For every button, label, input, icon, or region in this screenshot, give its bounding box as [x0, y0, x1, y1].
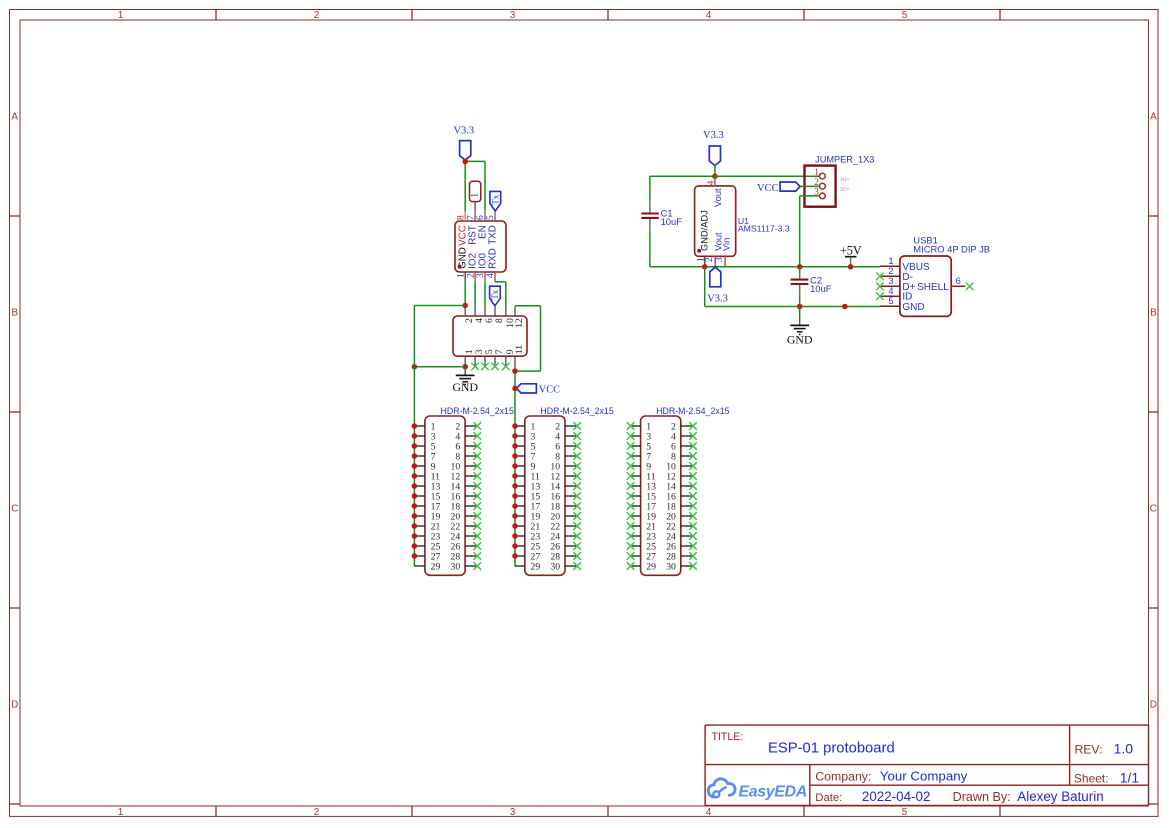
power flag +5V [840, 244, 862, 267]
svg-text:V3.3: V3.3 [453, 126, 474, 137]
wire J2 pin12 loop to pin11 [515, 306, 541, 371]
net flag VCC (jumper) [757, 182, 800, 194]
svg-text:2: 2 [314, 807, 320, 818]
svg-text:V3.3: V3.3 [703, 130, 724, 141]
wire JP1 pin3 down [800, 196, 820, 267]
no-connect mark USB1 pin 6 [966, 283, 974, 291]
svg-text:Sheet:: Sheet: [1074, 772, 1109, 786]
title texts [712, 731, 1140, 804]
svg-text:VCC: VCC [757, 183, 779, 194]
wire down to ESP pin 6 [484, 161, 486, 211]
svg-text:29: 29 [431, 561, 441, 572]
svg-text:Tx: Tx [490, 289, 500, 299]
svg-text:3: 3 [888, 276, 893, 286]
svg-text:ESP-01 protoboard: ESP-01 protoboard [768, 740, 895, 756]
svg-text:Vout: Vout [713, 188, 723, 207]
svg-text:3: 3 [714, 257, 724, 262]
junction +5V [848, 264, 854, 270]
svg-text:12: 12 [514, 318, 525, 328]
svg-text:EasyEDA: EasyEDA [739, 784, 807, 801]
svg-text:4: 4 [706, 10, 712, 21]
connector P4 HDR-M-2.54_2x15 [631, 406, 730, 575]
connector J2 2x6 header [453, 306, 527, 366]
wire left branch to GND rail [414, 305, 465, 307]
svg-text:B: B [1150, 308, 1157, 319]
svg-text:J12=: J12= [840, 177, 850, 182]
svg-text:RXD: RXD [488, 248, 499, 269]
wire ESP pin4 jog right [495, 282, 506, 306]
capacitor C2 10uF [791, 267, 832, 307]
net label Tx (lower) [490, 286, 501, 306]
connector P2 HDR-M-2.54_2x15 [414, 406, 514, 575]
junction J2 pin1 / GND [462, 364, 468, 370]
no-connect marks USB1 pins 2,3,4 [876, 273, 884, 301]
svg-text:+5V: +5V [840, 244, 862, 258]
wire top rail V3.3 [650, 175, 820, 177]
power flag V3.3 (output, pointing up) [707, 267, 728, 304]
jumper JP1 JUMPER_1X3 [805, 155, 875, 207]
connector P3 HDR-M-2.54_2x15 [515, 406, 614, 575]
svg-text:1: 1 [118, 807, 124, 818]
wire ESP pin3 down [484, 282, 486, 306]
svg-text:2022-04-02: 2022-04-02 [862, 789, 931, 804]
wire V3.3 flag stub [714, 166, 716, 177]
svg-text:SHELL: SHELL [917, 282, 949, 293]
svg-text:B: B [11, 308, 18, 319]
svg-text:Your Company: Your Company [880, 768, 968, 783]
ground symbol GND (left) [452, 367, 478, 395]
wire V3.3 to ESP pin 8 [464, 161, 466, 211]
svg-text:1: 1 [118, 10, 124, 21]
svg-text:Drawn By:: Drawn By: [953, 790, 1011, 804]
wire C1 top [649, 176, 651, 201]
no-connect marks J2 pins 3,5,7,9 [471, 363, 509, 371]
svg-text:1: 1 [814, 167, 819, 177]
svg-text:A: A [11, 112, 18, 123]
svg-text:REV:: REV: [1075, 742, 1103, 756]
svg-text:4: 4 [706, 807, 712, 818]
svg-text:30: 30 [550, 561, 560, 572]
no-connect marks HDR-M-2.54_2x15 right pins [573, 422, 581, 570]
svg-text:A: A [1150, 112, 1157, 123]
svg-text:GND: GND [787, 333, 813, 347]
svg-text:7: 7 [494, 349, 505, 354]
wire V3.3 branch right [465, 160, 486, 162]
svg-text:1/1: 1/1 [1120, 770, 1140, 786]
svg-text:GND/ADJ: GND/ADJ [699, 210, 709, 251]
svg-text:10uF: 10uF [810, 283, 832, 294]
junctions HDR-M-2.54_2x15 rail [512, 423, 518, 559]
svg-text:1: 1 [888, 256, 893, 266]
svg-text:GND: GND [452, 380, 478, 394]
ESP-01 module socket U2 [455, 211, 506, 281]
ground symbol GND (right) [787, 307, 813, 347]
svg-text:Company:: Company: [815, 769, 871, 783]
svg-text:10uF: 10uF [661, 216, 683, 227]
wire ESP pin2 down [474, 282, 476, 306]
junction at VCC flag [512, 386, 518, 392]
svg-text:4: 4 [485, 273, 496, 278]
wire ESP pin1 down [464, 282, 466, 306]
wire GND rail down to header 1 [413, 306, 415, 567]
junction V3.3 top rail [712, 174, 718, 180]
svg-text:JUMPER_1X3: JUMPER_1X3 [815, 155, 874, 165]
svg-text:5: 5 [902, 10, 908, 21]
svg-text:5: 5 [902, 807, 908, 818]
junction C2 top [797, 264, 803, 270]
junction rail at GND tie [412, 364, 418, 370]
power flag V3.3 (regulator top) [703, 130, 724, 165]
svg-text:2: 2 [814, 177, 819, 187]
svg-text:AMS1117-3.3: AMS1117-3.3 [738, 223, 790, 233]
junction J2 pin11 [512, 368, 518, 374]
svg-text:4: 4 [888, 286, 893, 296]
svg-text:2: 2 [888, 266, 893, 276]
svg-text:30: 30 [451, 561, 461, 572]
svg-text:Date:: Date: [815, 792, 842, 804]
EasyEDA logo [708, 779, 807, 801]
junction GND rail mid [842, 304, 848, 310]
svg-text:HDR-M-2.54_2x15: HDR-M-2.54_2x15 [441, 406, 514, 416]
svg-text:C: C [11, 504, 18, 515]
wire GND tie across [414, 366, 465, 368]
no-connect marks HDR-M-2.54_2x15 right pins [689, 422, 697, 570]
wire VCC rail down to header 2 [514, 366, 516, 566]
net flag VCC (left) [516, 384, 560, 396]
junction at V3.3 left [462, 159, 468, 165]
svg-text:Alexey Baturin: Alexey Baturin [1017, 789, 1103, 804]
junction U1 pin1 [702, 264, 708, 270]
wire +5V mid rail [650, 266, 880, 268]
svg-text:6: 6 [956, 276, 961, 286]
svg-text:GND: GND [902, 302, 924, 313]
svg-text:V3.3: V3.3 [707, 294, 728, 305]
svg-text:4: 4 [705, 180, 715, 185]
svg-text:HDR-M-2.54_2x15: HDR-M-2.54_2x15 [656, 406, 729, 416]
svg-text:J23=: J23= [840, 187, 850, 192]
svg-text:MICRO 4P DIP JB: MICRO 4P DIP JB [913, 244, 990, 255]
regulator U1 AMS1117-3.3 [695, 176, 790, 266]
no-connect marks HDR-M-2.54_2x15 left pins [627, 422, 635, 570]
title block [705, 725, 1148, 805]
svg-text:30: 30 [666, 561, 676, 572]
svg-text:11: 11 [514, 345, 525, 354]
svg-text:3: 3 [510, 10, 516, 21]
svg-text:TITLE:: TITLE: [712, 731, 744, 743]
power flag V3.3 (left) [453, 126, 474, 161]
svg-text:Vin: Vin [721, 238, 731, 251]
svg-text:D: D [11, 700, 18, 711]
svg-text:29: 29 [646, 561, 656, 572]
svg-text:29: 29 [531, 561, 541, 572]
svg-text:2: 2 [314, 10, 320, 21]
svg-text:VCC: VCC [539, 384, 560, 395]
1-pin header P1 [470, 181, 481, 211]
svg-text:HDR-M-2.54_2x15: HDR-M-2.54_2x15 [540, 406, 613, 416]
wire VCC to JP1 pin2 [800, 185, 819, 187]
svg-text:5: 5 [485, 215, 496, 220]
junction C2 bottom [797, 304, 803, 310]
svg-text:C: C [1150, 504, 1157, 515]
svg-text:1: 1 [470, 193, 481, 198]
USB connector USB1 MICRO 4P DIP JB [880, 234, 990, 316]
wire GND bottom rail [705, 306, 880, 308]
svg-text:1.0: 1.0 [1114, 740, 1134, 756]
junction ESP pin1 wire [462, 303, 468, 309]
svg-text:5: 5 [888, 296, 893, 306]
svg-text:2: 2 [704, 257, 714, 262]
svg-text:TXD: TXD [488, 225, 499, 245]
svg-text:3: 3 [510, 807, 516, 818]
svg-text:D: D [1150, 700, 1157, 711]
wire C1 bottom [649, 231, 651, 267]
wire U1 GND down [704, 267, 706, 307]
no-connect marks HDR-M-2.54_2x15 right pins [474, 422, 482, 570]
svg-text:8: 8 [494, 318, 505, 323]
svg-text:Tx: Tx [490, 194, 500, 204]
net label Tx (upper) [490, 191, 501, 211]
junctions HDR-M-2.54_2x15 rail [412, 423, 418, 559]
capacitor C1 10uF [641, 201, 682, 231]
